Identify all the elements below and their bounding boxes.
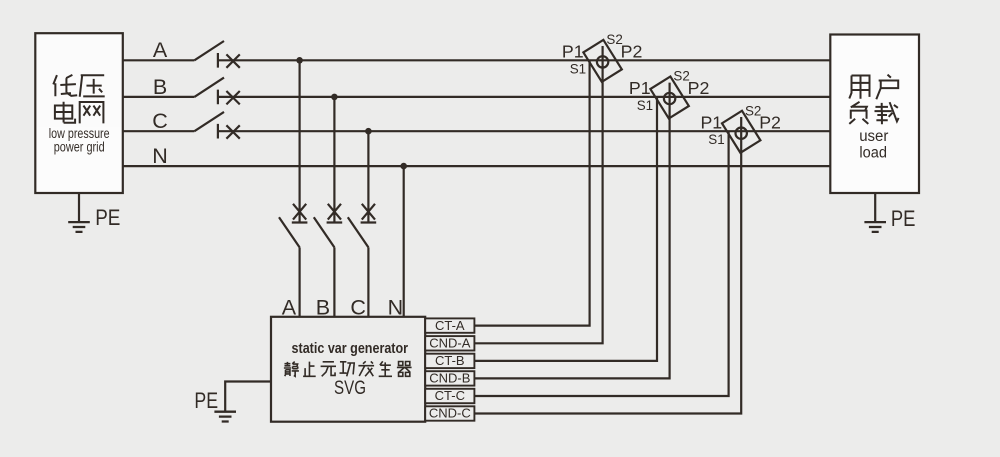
- svg-text:CT-B: CT-B: [435, 353, 465, 368]
- svg-text:PE: PE: [194, 388, 218, 413]
- svg-text:P2: P2: [759, 112, 781, 132]
- svg-text:S2: S2: [673, 69, 689, 84]
- svg-text:P1: P1: [562, 42, 584, 62]
- svg-text:P1: P1: [629, 78, 651, 98]
- svg-text:user: user: [859, 128, 888, 145]
- svg-text:B: B: [316, 295, 330, 319]
- svg-text:P2: P2: [621, 42, 643, 62]
- svg-text:S1: S1: [570, 61, 586, 76]
- svg-text:A: A: [153, 38, 168, 62]
- svg-text:P1: P1: [700, 112, 722, 132]
- svg-text:S1: S1: [637, 98, 653, 113]
- svg-text:CND-A: CND-A: [429, 336, 470, 351]
- svg-text:B: B: [153, 75, 167, 99]
- svg-text:N: N: [152, 144, 168, 168]
- svg-text:C: C: [350, 295, 366, 319]
- svg-text:A: A: [282, 295, 297, 319]
- svg-text:P2: P2: [688, 78, 710, 98]
- svg-text:PE: PE: [95, 205, 120, 230]
- svg-text:S2: S2: [745, 104, 761, 119]
- svg-text:CND-C: CND-C: [429, 406, 471, 421]
- svg-text:PE: PE: [891, 206, 916, 231]
- svg-text:power grid: power grid: [54, 139, 105, 154]
- svg-text:C: C: [152, 109, 168, 133]
- svg-text:S2: S2: [606, 32, 622, 47]
- svg-text:CT-C: CT-C: [435, 388, 465, 403]
- svg-text:S1: S1: [708, 132, 724, 147]
- svg-text:N: N: [388, 295, 404, 319]
- svg-text:static var generator: static var generator: [292, 341, 409, 357]
- svg-text:CT-A: CT-A: [435, 318, 465, 333]
- svg-text:load: load: [859, 144, 887, 161]
- svg-text:CND-B: CND-B: [429, 371, 470, 386]
- svg-text:SVG: SVG: [334, 377, 366, 399]
